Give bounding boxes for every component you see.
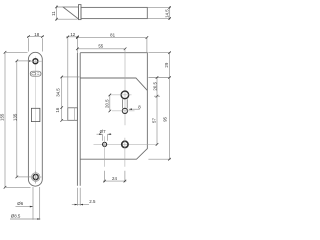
stamp oval: [30, 71, 41, 76]
svg-text:Ø7: Ø7: [100, 129, 106, 134]
dim 20.5 right line: [156, 78, 158, 97]
bottom right hole vertical centerline: [124, 138, 126, 167]
dia7 hole vertical centerline: [104, 136, 106, 167]
dim 155 line: [4, 52, 6, 187]
dim 18 extension lines: [29, 38, 43, 51]
top holes vertical centerline: [124, 49, 126, 125]
dim 34.5 top extension: [61, 76, 80, 78]
dim 11 extension lines: [57, 7, 78, 19]
dim 81 line: [77, 37, 146, 39]
dim 81 right extension: [146, 38, 148, 53]
dim 8 leader: [129, 108, 140, 110]
stamp oval inner mark: [32, 72, 36, 75]
dia7 dim line: [97, 133, 112, 135]
bottom right hole: [122, 141, 128, 147]
dia6 extension lines: [33, 187, 40, 220]
follower slot sides: [123, 99, 128, 108]
bottom screw hole countersink: [31, 173, 40, 182]
svg-text:29: 29: [164, 62, 169, 67]
bottom holes horizontal centerline: [94, 143, 157, 145]
svg-text:Ø6: Ø6: [17, 201, 23, 206]
small hole below follower: [122, 108, 127, 113]
right extension at internal line: [148, 77, 170, 79]
dim 24 extension lines: [105, 171, 125, 183]
svg-text:14.5: 14.5: [165, 9, 170, 18]
svg-text:20.5: 20.5: [152, 81, 157, 90]
dim 29 top extension: [148, 52, 170, 54]
faceplate strip extensions for dim 2.5: [77, 188, 80, 206]
dim 11 line: [56, 6, 58, 21]
dim 135 line: [16, 61, 18, 177]
svg-text:18: 18: [34, 32, 39, 37]
dim 55 line: [77, 48, 125, 50]
dim 2.5 line: [72, 204, 89, 206]
svg-text:20.5: 20.5: [105, 99, 110, 108]
latch bolt (side view): [68, 108, 78, 121]
svg-text:Ø8.5: Ø8.5: [11, 213, 21, 218]
dim 29 line: [169, 53, 171, 78]
latch opening: [31, 108, 40, 121]
dim 135 extensions: [17, 60, 31, 62]
svg-text:8: 8: [138, 104, 141, 109]
dia7 extension lines: [102, 134, 107, 141]
svg-text:11: 11: [51, 11, 56, 16]
svg-text:34.5: 34.5: [56, 88, 61, 97]
bottom hole centerlines: [35, 171, 37, 184]
case outline: [80, 53, 147, 160]
lock case band (top view): [81, 7, 147, 18]
dia7 hole: [103, 142, 107, 146]
top hole centerline: [30, 60, 42, 62]
small hole centerline: [112, 110, 135, 112]
latch bolt wedge (top view): [63, 7, 79, 19]
svg-text:12: 12: [70, 32, 75, 37]
dim 12 line: [66, 36, 79, 38]
follower hole top centerline: [110, 94, 132, 96]
svg-text:16: 16: [55, 107, 60, 112]
bottom screw hole: [33, 174, 38, 179]
svg-text:55: 55: [98, 44, 103, 49]
dia6 dim line: [16, 206, 33, 208]
dim 16 bottom extension: [62, 119, 68, 121]
svg-text:81: 81: [110, 33, 115, 38]
dim 12 extension (latch front face): [67, 37, 69, 108]
dia8.5 dim line: [10, 218, 40, 220]
svg-text:135: 135: [12, 113, 17, 121]
svg-text:155: 155: [0, 113, 5, 121]
dim 20.5 right tick extension: [154, 95, 160, 97]
svg-text:95: 95: [163, 116, 168, 121]
faceplate centerline: [34, 57, 36, 184]
dim 14.5 line: [169, 6, 171, 20]
dim 12 extension right / 81 left: [76, 37, 78, 53]
dim 57 line: [156, 96, 158, 144]
case internal plate edge with chamfer: [80, 78, 147, 90]
dim 95 bottom extension: [148, 158, 170, 160]
dim 20.5 left line: [109, 95, 111, 111]
dim 14.5 extension lines: [147, 8, 170, 19]
dim 34.5 / 16 line: [61, 77, 63, 121]
svg-text:2.5: 2.5: [89, 199, 96, 204]
faceplate edge (top view): [79, 5, 82, 20]
faceplate strip (side view): [77, 53, 80, 186]
dim 155 extensions: [5, 52, 31, 187]
faceplate outline: [28, 52, 42, 186]
svg-text:24: 24: [112, 176, 117, 181]
follower hole top: [121, 91, 129, 99]
dim 18 line: [27, 36, 44, 38]
latch bolt inner line: [74, 108, 76, 121]
svg-text:57: 57: [151, 118, 156, 123]
top screw hole: [33, 59, 38, 64]
dim 24 line: [103, 180, 126, 182]
dim 95 line: [169, 78, 171, 160]
